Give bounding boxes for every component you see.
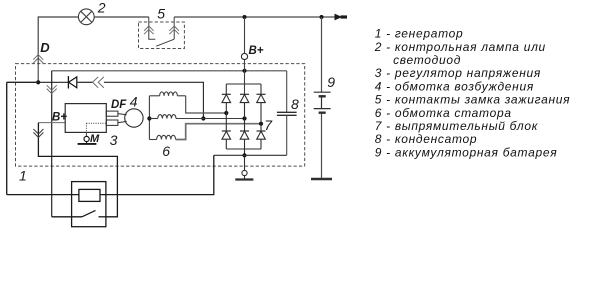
connector chevron down on load branch	[33, 129, 43, 137]
connector chevron up on switch right	[169, 26, 179, 34]
label 5	[157, 6, 165, 22]
svg-text:6: 6	[162, 143, 170, 159]
node dot bottom phase	[259, 122, 263, 126]
terminal circle generator ground	[242, 155, 247, 175]
capacitor C 8 plates	[277, 112, 297, 115]
capacitor C 8 top lead	[286, 71, 288, 113]
svg-text:2 - контрольная лампа или: 2 - контрольная лампа или	[374, 40, 546, 54]
terminal B+ label top	[249, 45, 264, 57]
wire B+ branch vertical with connector	[51, 71, 53, 217]
rectifier left column wire	[225, 84, 227, 149]
load switch blade	[82, 210, 96, 216]
node dot star point	[147, 116, 151, 120]
generator dashed enclosure (1)	[16, 64, 305, 167]
label 3	[110, 132, 118, 148]
svg-text:7 - выпрямительный блок: 7 - выпрямительный блок	[375, 119, 539, 133]
diode rectifier top-left	[222, 94, 231, 102]
diode VD (pointing left)	[68, 76, 76, 88]
wire top bus from switch 5 to right arrow end	[174, 16, 340, 18]
battery cell 2 plates	[314, 109, 331, 113]
terminal M circle	[84, 136, 89, 141]
terminal M label	[90, 133, 100, 145]
node dot D wire to middle phase	[201, 116, 205, 120]
svg-text:6 - обмотка статора: 6 - обмотка статора	[375, 106, 512, 120]
wire regulator M terminal stub	[85, 132, 87, 136]
ground bar under M	[78, 142, 97, 144]
svg-text:4: 4	[130, 93, 138, 109]
stator winding 6 middle coil	[149, 115, 176, 119]
wire internal B+ bus horizontal	[52, 70, 287, 72]
wire D node to diode VD	[38, 81, 68, 83]
svg-text:5: 5	[157, 6, 165, 22]
diode rectifier bottom-right	[257, 131, 266, 139]
regulator terminal pin lower	[106, 120, 118, 125]
svg-text:1: 1	[19, 167, 27, 183]
ignition switch S 5 dashed box	[139, 22, 185, 49]
rectifier block 7 top bus	[226, 83, 261, 85]
battery cell 1 plates	[314, 92, 331, 96]
wire terminal D vertical into generator	[37, 55, 39, 82]
wire chevrons to phase tap corner	[104, 82, 203, 118]
battery GB 9 top lead	[321, 17, 323, 92]
wire top phase to rectifier	[186, 96, 227, 113]
svg-text:8 - конденсатор: 8 - конденсатор	[375, 132, 478, 146]
terminal B+ label at regulator	[52, 111, 67, 123]
label 2	[97, 0, 106, 15]
node dot top phase	[224, 111, 228, 115]
svg-text:светодиод: светодиод	[393, 53, 461, 67]
ground bar under rectifier	[235, 176, 253, 180]
rectifier right column wire	[260, 84, 262, 149]
node dot middle phase	[242, 116, 246, 120]
load switch left stub	[52, 216, 82, 218]
wire load resistor feed from left edge	[7, 194, 79, 196]
wire diode to connector chevrons	[77, 81, 93, 83]
svg-text:2: 2	[97, 0, 106, 15]
svg-text:B+: B+	[249, 45, 264, 57]
node dot ground junction under rectifier	[242, 153, 246, 157]
svg-text:9: 9	[327, 74, 335, 90]
terminal D label	[40, 40, 50, 55]
load box enclosure	[72, 182, 106, 227]
node junction dot B+ bus / top wire	[243, 15, 247, 19]
svg-text:D: D	[40, 40, 50, 55]
connector chevron up on switch left	[144, 26, 154, 34]
svg-text:DF: DF	[111, 99, 127, 111]
field winding rotor circle 4	[125, 109, 143, 127]
label 4	[130, 93, 138, 109]
node junction dot battery / top wire	[320, 15, 324, 19]
wire regulator B+ input	[38, 122, 65, 124]
svg-text:9 - аккумуляторная батарея: 9 - аккумуляторная батарея	[375, 145, 558, 159]
node dot internal B+ bus / rectifier column	[243, 69, 247, 73]
stator winding 6 top coil	[149, 92, 185, 96]
lamp HL 2 (control lamp)	[78, 9, 94, 25]
label 6	[162, 143, 170, 159]
diode rectifier top-right	[257, 94, 266, 102]
label 1	[19, 167, 27, 183]
wire pins to brush circle	[118, 114, 127, 123]
svg-text:7: 7	[264, 117, 273, 133]
regulator terminal pin upper (DF)	[106, 111, 118, 116]
terminal DF label	[111, 99, 127, 111]
label 9	[327, 74, 335, 90]
connector chevron down on B+ branch	[47, 85, 57, 93]
ignition switch left contact wire	[149, 17, 156, 39]
terminal B+ circle on feed wire	[241, 53, 247, 59]
diode rectifier bottom-left	[222, 131, 231, 139]
svg-text:1 - генератор: 1 - генератор	[375, 27, 464, 41]
battery inter-cell lead	[321, 98, 323, 109]
svg-text:4 - обмотка возбуждения: 4 - обмотка возбуждения	[375, 79, 534, 93]
wire bottom phase to rectifier	[176, 124, 261, 140]
ground bus wire under rectifier	[214, 154, 287, 156]
ignition switch blade	[156, 39, 174, 46]
svg-text:3 - регулятор напряжения: 3 - регулятор напряжения	[375, 66, 541, 80]
legend text	[374, 27, 571, 160]
resistor in load box	[79, 189, 100, 201]
stator star point vertical	[148, 96, 150, 140]
label 8	[291, 96, 299, 112]
svg-text:3: 3	[110, 132, 118, 148]
connector chevrons left-pointing on D wire	[93, 77, 104, 88]
svg-text:5 - контакты замка зажигания: 5 - контакты замка зажигания	[375, 93, 571, 107]
load switch right stub	[99, 216, 106, 218]
diode rectifier bottom-center	[240, 131, 249, 139]
arrow terminal at right end of top bus	[335, 14, 348, 21]
rectifier block 7 bottom bus	[226, 148, 261, 150]
wire resistor to ground bus riser	[100, 155, 214, 194]
wire top bus from lamp corner to switch 5	[38, 17, 149, 55]
wire middle phase to rectifier	[176, 118, 245, 120]
connector chevron up at terminal D	[33, 55, 43, 63]
battery bottom lead to ground bar	[311, 114, 332, 179]
label 7	[264, 117, 273, 133]
wire load branch vertical with connector	[38, 123, 117, 217]
stator winding 6 bottom coil	[149, 135, 175, 139]
svg-text:8: 8	[291, 96, 299, 112]
node D junction dot	[36, 80, 40, 84]
regulator U 3 box	[65, 104, 106, 133]
svg-text:M: M	[90, 133, 100, 145]
capacitor C 8 bottom lead	[286, 115, 288, 155]
rectifier center column wire (B+ feed)	[244, 17, 246, 155]
ignition switch right contact wire	[173, 17, 175, 39]
wire left edge vertical down	[6, 82, 8, 194]
dotted control line inside regulator	[86, 123, 106, 132]
wire D node to left edge	[7, 81, 39, 83]
diode rectifier top-center	[240, 94, 249, 102]
